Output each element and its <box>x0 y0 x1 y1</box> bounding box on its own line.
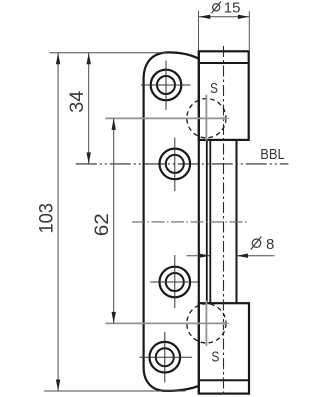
top knuckle body <box>199 51 249 140</box>
top dashed circle gray crosshair horizontal <box>106 117 227 119</box>
top knuckle cap line <box>199 62 249 64</box>
knuckle column left edge / leaf right edge <box>198 51 200 393</box>
dimension dia15 text <box>213 4 220 11</box>
svg-text:34: 34 <box>67 90 88 112</box>
top security pin dashed circle <box>187 99 226 138</box>
screw hole 2 vertical crosshair <box>174 138 176 192</box>
svg-text:BBL: BBL <box>260 147 285 163</box>
screw hole 4 inner <box>156 348 174 366</box>
pin right edge <box>236 139 238 303</box>
dimension 103 line <box>57 53 59 391</box>
screw hole 4 outer <box>150 342 181 373</box>
dimension dia8 text <box>252 239 260 247</box>
bottom dashed circle gray crosshair vertical <box>205 301 207 347</box>
bottom knuckle cap line <box>199 379 249 381</box>
top dashed circle gray crosshair vertical <box>205 95 207 141</box>
screw hole 2 inner <box>166 155 184 173</box>
top extension line <box>50 52 167 54</box>
dimension dia8 line right <box>237 255 275 257</box>
svg-text:S: S <box>210 81 218 97</box>
screw hole 1 outer <box>151 70 182 101</box>
middle section line b (pin left edge) <box>209 140 211 303</box>
svg-text:62: 62 <box>92 213 113 236</box>
svg-text:15: 15 <box>224 0 241 16</box>
bottom extension line <box>44 390 185 392</box>
BBL reference line <box>76 163 289 165</box>
dimension dia15 extension lines <box>198 11 200 51</box>
screw hole 4 crosshair <box>140 356 193 358</box>
bottom crosshair arrowhead <box>223 322 231 326</box>
svg-text:S: S <box>211 350 219 366</box>
svg-text:8: 8 <box>266 236 274 253</box>
screw hole 1 inner <box>157 76 175 94</box>
screw hole 3 crosshair <box>150 281 198 283</box>
middle section line a <box>206 140 208 303</box>
vertical centerline of knuckle <box>223 46 225 397</box>
svg-text:103: 103 <box>37 203 58 234</box>
screw hole 2 outer <box>160 149 191 180</box>
dimension 34 line <box>88 53 90 164</box>
hinge leaf outline <box>144 52 199 391</box>
screw hole 1 crosshair <box>141 84 191 86</box>
screw hole 3 inner <box>166 273 184 291</box>
top crosshair arrowhead <box>223 117 231 121</box>
mid-height centerline <box>132 221 248 223</box>
dimension 62 line <box>113 118 115 323</box>
dimension dia15 line <box>199 16 250 18</box>
bottom dashed circle gray crosshair horizontal <box>106 322 227 324</box>
screw hole 3 outer <box>160 267 191 298</box>
dimension dia8 line left <box>187 255 211 257</box>
bottom security pin dashed circle <box>187 304 226 343</box>
bottom knuckle body <box>199 303 249 393</box>
